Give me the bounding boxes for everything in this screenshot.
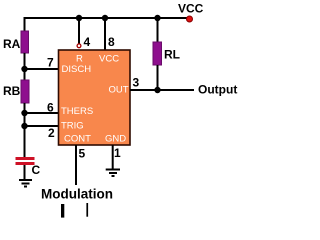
resistor RA — [21, 31, 29, 53]
svg-text:1: 1 — [114, 146, 121, 160]
capacitor C — [16, 157, 35, 165]
svg-text:VCC: VCC — [99, 54, 119, 65]
node junction pin4 on rail — [76, 15, 82, 21]
svg-text:C: C — [32, 163, 41, 177]
modulation lead bar left — [61, 204, 64, 218]
svg-text:8: 8 — [108, 35, 115, 49]
modulation lead bar right — [86, 203, 88, 217]
wire pin 3 output — [130, 89, 194, 91]
wire pin 4 reset — [78, 18, 80, 44]
wire top rail VCC — [25, 17, 189, 19]
node junction pin6 — [21, 110, 27, 116]
wire pin 1 ground — [112, 145, 114, 169]
VCC terminal red dot — [187, 16, 193, 22]
wire rail to RL — [157, 18, 159, 42]
svg-text:6: 6 — [47, 101, 54, 115]
svg-text:7: 7 — [47, 56, 54, 70]
node junction pin7 — [21, 66, 27, 72]
svg-text:2: 2 — [48, 126, 55, 140]
svg-text:CONT: CONT — [64, 134, 91, 145]
svg-text:OUT: OUT — [109, 85, 129, 96]
svg-text:5: 5 — [79, 147, 86, 161]
svg-text:THERS: THERS — [61, 106, 93, 117]
svg-text:RA: RA — [3, 37, 21, 51]
wire pin 7 to DISCH — [25, 68, 59, 70]
svg-text:RB: RB — [3, 84, 21, 98]
node junction RL on rail — [154, 15, 160, 21]
wire pin 2 to TRIG — [25, 125, 59, 127]
ground (left, below C) — [19, 180, 32, 187]
IC U1 555 timer body — [59, 50, 131, 145]
pin 4 active-low bubble — [77, 44, 81, 48]
svg-text:Modulation: Modulation — [41, 187, 113, 202]
ground (pin 1) — [106, 170, 120, 177]
node junction pin8 on rail — [102, 15, 108, 21]
svg-text:VCC: VCC — [178, 2, 204, 16]
svg-text:DISCH: DISCH — [62, 64, 92, 75]
wire pin 8 — [104, 18, 106, 51]
wire pin 6 to THERS — [25, 112, 59, 114]
node junction output — [154, 87, 160, 93]
node junction pin2 — [21, 123, 27, 129]
svg-text:Output: Output — [198, 83, 237, 97]
wire capacitor to ground — [24, 165, 26, 180]
svg-text:R: R — [76, 54, 83, 65]
svg-text:TRIG: TRIG — [61, 121, 84, 132]
svg-text:3: 3 — [133, 76, 140, 90]
wire RB to capacitor — [24, 103, 26, 157]
resistor RL — [153, 42, 162, 65]
svg-text:RL: RL — [164, 48, 180, 62]
svg-text:4: 4 — [84, 35, 91, 49]
wire RA to node7 — [24, 53, 26, 80]
wire left vertical from rail to RA — [24, 17, 26, 32]
wire RL to output node — [157, 65, 159, 90]
resistor RB — [21, 80, 29, 103]
svg-text:GND: GND — [105, 134, 126, 145]
wire pin 5 control — [75, 145, 77, 185]
